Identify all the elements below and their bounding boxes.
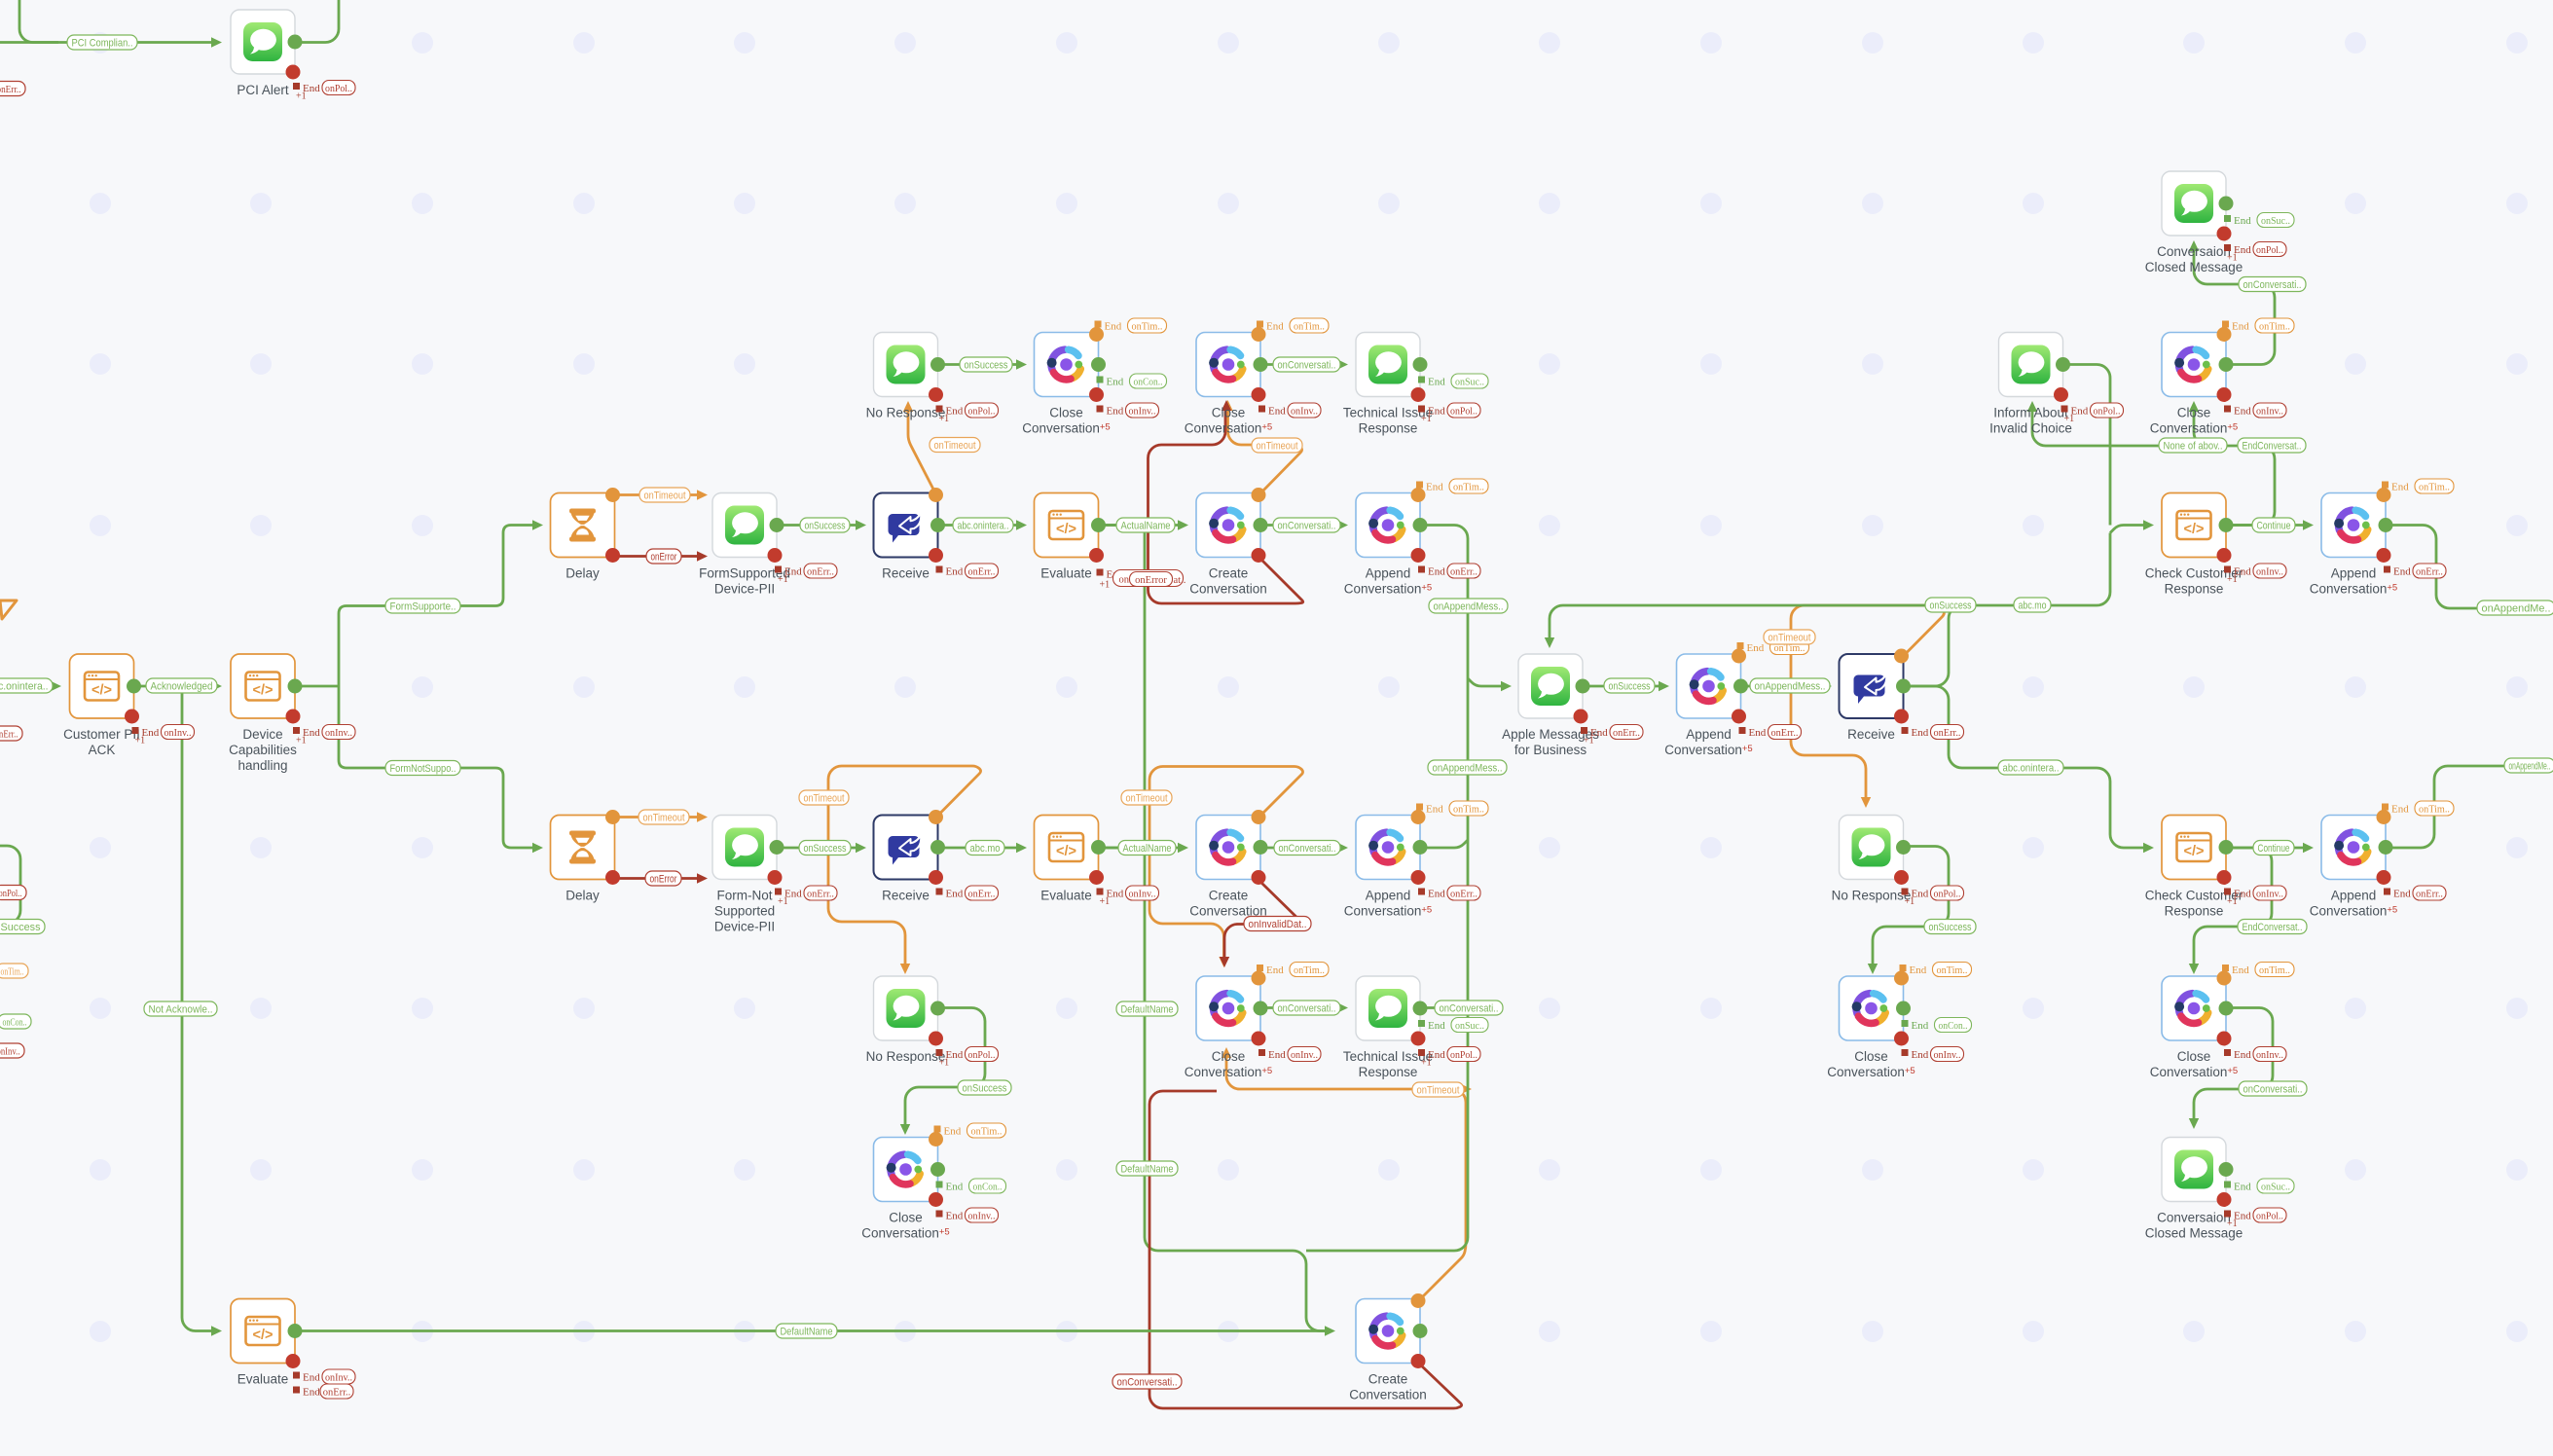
- svg-text:onErr..: onErr..: [968, 889, 996, 899]
- wire from top edge joining PCI wire: [19, 0, 58, 43]
- port red err LR2: [2054, 387, 2068, 402]
- svg-text:onInv..: onInv..: [325, 1372, 352, 1383]
- port green out CPA: [127, 679, 141, 694]
- svg-text:End: End: [2393, 889, 2411, 900]
- svg-text:Conversation+5: Conversation+5: [2310, 582, 2397, 597]
- node Close Conversation 6 (donut): [2150, 333, 2238, 436]
- end label onPol.. of MR1: [2224, 242, 2286, 264]
- wire Device Capabilities split: [295, 685, 339, 688]
- wire Delay1 onError: [615, 555, 701, 558]
- port green out Recv3: [1896, 679, 1911, 694]
- wire Apple Messages onSuccess: [1585, 685, 1662, 688]
- svg-text:onErr..: onErr..: [807, 566, 834, 577]
- arrowhead into CheckCustomerResponse2: [2143, 843, 2154, 853]
- arrowhead into Create1: [1178, 520, 1188, 529]
- wire TIR2 onConversation into trunk: [1421, 1006, 1465, 1009]
- svg-text:Close: Close: [2177, 406, 2211, 420]
- port red err NR3: [2377, 548, 2391, 563]
- node Append Conversation 4 (donut): [2310, 816, 2397, 919]
- node Append Conversation 2 (donut): [1664, 654, 1752, 757]
- svg-text:onInv..: onInv..: [164, 728, 192, 739]
- port green out CCM2: [2219, 1162, 2234, 1177]
- label wire label onError: [646, 549, 681, 564]
- node Delay 2 (delay): [551, 816, 615, 903]
- port green out Append2b: [1413, 840, 1428, 855]
- svg-text:onCon..: onCon..: [1134, 377, 1163, 387]
- arrowhead into Evaluate1: [1016, 520, 1027, 529]
- port green out CCM1: [2219, 197, 2234, 211]
- node Create Conversation 1 (donut): [1189, 493, 1267, 597]
- arrowhead into Customer PII ACK: [51, 681, 61, 691]
- port orange out Append1: [1411, 488, 1426, 502]
- end label onInv.. of GR2: [1258, 403, 1321, 418]
- svg-text:+1: +1: [296, 91, 307, 102]
- wire NoResponse1 onSuccess: [938, 363, 1020, 366]
- svg-text:End: End: [2232, 321, 2249, 333]
- node Customer PII ACK (eval): [63, 654, 140, 757]
- svg-text:End: End: [946, 1211, 964, 1222]
- svg-text:Response: Response: [2165, 904, 2224, 919]
- port red err JR4: [1732, 710, 1746, 724]
- svg-text:PCI Alert: PCI Alert: [237, 83, 289, 97]
- label wire label DefaultName: [1116, 1161, 1178, 1176]
- svg-text:onTim..: onTim..: [971, 1126, 1003, 1137]
- arrowhead into Receive3: [1821, 681, 1832, 691]
- label wire label onSuccess: [1925, 598, 1976, 612]
- svg-text:onInv..: onInv..: [2256, 889, 2283, 899]
- svg-text:+1: +1: [778, 896, 788, 907]
- port orange out Create1: [1252, 488, 1266, 502]
- port green out Append1: [1413, 518, 1428, 532]
- port green out Inform: [2056, 357, 2070, 372]
- svg-text:Continue: Continue: [2257, 520, 2291, 531]
- svg-text:abc.mo: abc.mo: [970, 843, 1001, 855]
- svg-text:ACK: ACK: [89, 743, 116, 757]
- port green out NoResp1: [930, 357, 945, 372]
- svg-text:onSuccess: onSuccess: [963, 1082, 1007, 1094]
- arrowhead into Inform bottom: [2027, 401, 2037, 412]
- svg-text:abc.onintera..: abc.onintera..: [0, 680, 49, 692]
- svg-text:ActualName: ActualName: [1123, 843, 1172, 855]
- svg-text:End: End: [1266, 965, 1284, 976]
- svg-text:Receive: Receive: [882, 889, 930, 903]
- wire Close2 onConversation: [1261, 363, 1341, 366]
- end label onTim.. of KR6: [1900, 963, 1972, 977]
- wire FormSupported branch to Delay1: [339, 526, 535, 687]
- svg-text:onError: onError: [651, 551, 677, 563]
- wire onSuccess rail left into AMB top: [1550, 605, 1956, 640]
- svg-text:Receive: Receive: [1847, 727, 1895, 742]
- node Conversaion Closed Message 1 (chat): [2145, 171, 2243, 274]
- svg-text:Conversation+5: Conversation+5: [2150, 421, 2238, 436]
- end label onTim.. of FR2: [1095, 318, 1167, 333]
- port red err BR8: [286, 1354, 301, 1368]
- svg-text:Continue: Continue: [2258, 843, 2290, 855]
- svg-text:End: End: [1747, 642, 1765, 654]
- node Device Capabilities handling (eval): [229, 654, 297, 773]
- port orange out Close6: [2217, 327, 2232, 342]
- end label onPol.. of ER2: [936, 403, 999, 424]
- port red err IR4: [1574, 710, 1588, 724]
- arrowhead into NoResponse1 bottom: [903, 401, 913, 412]
- label wire label FormSupporte..: [385, 599, 460, 613]
- node Append Conversation 1 (donut): [1344, 493, 1432, 597]
- end label onSuc.. of MR1: [2224, 213, 2294, 228]
- svg-text:onPol..: onPol..: [0, 888, 22, 899]
- svg-text:Conversation+5: Conversation+5: [1827, 1065, 1915, 1079]
- svg-text:onPol..: onPol..: [1450, 406, 1477, 417]
- port red err MR2: [2217, 387, 2232, 402]
- arrowhead into Close7 top: [2189, 964, 2199, 974]
- svg-text:onTim..: onTim..: [1294, 321, 1325, 332]
- node Close Conversation 3 (donut): [1185, 976, 1272, 1079]
- wire rail corner into CCR1: [2110, 526, 2146, 533]
- wire NoResponse3 onSuccess to Close5: [1873, 847, 1949, 967]
- node Check Customer Response 1 (eval): [2145, 493, 2243, 597]
- svg-text:+1: +1: [2227, 1219, 2238, 1229]
- port green out Create2: [1254, 840, 1268, 855]
- label wire label onConversati..: [1435, 1001, 1503, 1015]
- label wire label Acknowledged: [146, 678, 217, 693]
- svg-text:at..: at..: [1174, 575, 1186, 586]
- end label onInv.. of FR5: [1097, 886, 1159, 907]
- end label onErr.. of JR4: [1739, 725, 1802, 740]
- svg-text:onSuccess: onSuccess: [1609, 680, 1651, 692]
- port red err ER3: [929, 548, 943, 563]
- svg-text:onInv..: onInv..: [325, 728, 352, 739]
- svg-text:onTimeout: onTimeout: [1126, 792, 1168, 804]
- label wire label onAppendMe..: [2477, 601, 2553, 615]
- port green out Close6: [2219, 357, 2234, 372]
- end label onTim.. of JR4: [1737, 640, 1809, 655]
- node FormSupported Device-PII (chat): [699, 493, 790, 597]
- end label onPol.. of KR5: [1902, 886, 1964, 907]
- label wire label onTimeout: [1252, 438, 1302, 453]
- svg-text:onSuccess: onSuccess: [965, 359, 1008, 371]
- svg-text:End: End: [2234, 215, 2251, 227]
- port green out TIR2: [1413, 1001, 1428, 1016]
- svg-text:End: End: [1426, 482, 1443, 493]
- wire branch into Apple Messages: [1468, 678, 1504, 686]
- arrowhead into FormNot topleft: [697, 812, 708, 821]
- svg-text:onTim..: onTim..: [2259, 965, 2290, 976]
- svg-text:Conversation+5: Conversation+5: [1185, 421, 1272, 436]
- end label onSuc.. of HR6: [1418, 1018, 1488, 1033]
- arrowhead into Receive2: [856, 843, 866, 853]
- svg-text:onErr..: onErr..: [2416, 566, 2443, 577]
- svg-text:End: End: [2391, 804, 2409, 816]
- svg-text:End: End: [1428, 1020, 1445, 1032]
- svg-text:onTimeout: onTimeout: [644, 490, 686, 501]
- svg-text:Conversation: Conversation: [1349, 1388, 1427, 1402]
- svg-text:Append: Append: [2331, 566, 2377, 581]
- arrowhead into Delay1: [532, 520, 543, 529]
- wire Delay2 onTimeout: [615, 816, 701, 819]
- arrowhead into Evaluate2: [1016, 843, 1027, 853]
- wire PCI Alert output to top edge: [295, 0, 339, 43]
- svg-text:onError: onError: [650, 873, 677, 885]
- end label onSuc.. of HR2: [1418, 374, 1488, 388]
- svg-text:onTim..: onTim..: [2419, 804, 2450, 815]
- port green out Close7: [2219, 1001, 2234, 1016]
- label wire label onError: [645, 871, 681, 886]
- port red err MR1: [2217, 227, 2232, 241]
- svg-text:Conversation+5: Conversation+5: [1664, 743, 1752, 757]
- svg-text:onConversati..: onConversati..: [1440, 1002, 1499, 1014]
- svg-text:Device-PII: Device-PII: [714, 920, 775, 934]
- label left edge cut label onErr..: [0, 726, 22, 741]
- svg-text:onInv..: onInv..: [1129, 889, 1156, 899]
- arrowhead into NoResponse3 top: [1861, 797, 1871, 808]
- wire Append4 onAppendMessage exits right: [2387, 766, 2553, 848]
- port red err FR2: [1089, 387, 1104, 402]
- arrowhead into Close2 bottom (orange): [1222, 400, 1232, 411]
- end label onInv.. of KR6: [1902, 1047, 1964, 1062]
- end label onTim.. of MR2: [2222, 318, 2294, 333]
- node Receive 1 (receive): [874, 493, 938, 581]
- svg-text:onInv..: onInv..: [1291, 1050, 1318, 1061]
- svg-text:onTim..: onTim..: [1132, 321, 1163, 332]
- node Evaluate 2 (eval): [1035, 816, 1099, 903]
- svg-text:onPol..: onPol..: [968, 406, 996, 417]
- end label onErr.. of IR4: [1581, 725, 1643, 746]
- wire Create3 onTimeout loop to Close3 bottom: [1226, 1056, 1466, 1301]
- end label onPol.. of BR0: [293, 81, 355, 102]
- port green out AMB: [1576, 679, 1590, 694]
- port green out Eval1: [1091, 518, 1106, 532]
- port orange out Close4: [929, 1132, 943, 1147]
- wire Close6 onConversationClosed to CCM1: [2194, 249, 2275, 365]
- svg-text:onConversati..: onConversati..: [2243, 279, 2302, 291]
- label wire label Continue: [2252, 518, 2295, 532]
- svg-text:onInv..: onInv..: [2256, 566, 2283, 577]
- arrowhead into PCI Alert: [211, 37, 222, 47]
- end label onTim.. of NR3: [2382, 479, 2454, 493]
- svg-text:Response: Response: [2165, 582, 2224, 597]
- node Close Conversation 7 (donut): [2150, 976, 2238, 1079]
- svg-text:None of abov..: None of abov..: [2164, 440, 2223, 452]
- port red err HR2: [1411, 387, 1426, 402]
- svg-text:onErr..: onErr..: [1450, 566, 1477, 577]
- label left edge cut label onPol..: [0, 886, 26, 900]
- svg-text:onErr..: onErr..: [0, 728, 18, 740]
- svg-text:Delay: Delay: [565, 566, 600, 581]
- label wire label onSuccess: [1924, 920, 1976, 934]
- svg-text:onInv..: onInv..: [2256, 1050, 2283, 1061]
- svg-text:No Response: No Response: [866, 406, 946, 420]
- svg-text:End: End: [946, 566, 964, 578]
- svg-text:+1: +1: [1100, 896, 1111, 907]
- svg-text:onInv..: onInv..: [1129, 406, 1156, 417]
- label wire label DefaultName: [1116, 1001, 1178, 1016]
- end label onTim.. of HR3: [1416, 479, 1488, 493]
- label wire label onConversati..: [2239, 277, 2306, 292]
- svg-text:onTim..: onTim..: [1453, 482, 1484, 492]
- svg-text:Conversation+5: Conversation+5: [2310, 904, 2397, 919]
- node Delay 1 (delay): [551, 493, 615, 581]
- svg-text:onConversati..: onConversati..: [1278, 520, 1336, 531]
- label wire label ActualName: [1118, 841, 1176, 855]
- svg-text:Receive: Receive: [882, 566, 930, 581]
- svg-text:Create: Create: [1209, 566, 1249, 581]
- svg-text:+1: +1: [1421, 1058, 1432, 1069]
- port orange out Close7: [2217, 971, 2232, 986]
- svg-text:onTim..: onTim..: [1453, 804, 1484, 815]
- end label onTim.. of NR5: [2382, 801, 2454, 816]
- end label onPol.. of LR2: [2061, 403, 2124, 424]
- port red err GR6: [1252, 1032, 1266, 1046]
- end label onErr.. of DR3: [775, 564, 837, 585]
- port green out Create3: [1413, 1324, 1428, 1338]
- svg-text:End: End: [303, 1372, 320, 1384]
- port red err ER7: [929, 1192, 943, 1207]
- node Close Conversation 5 (donut): [1827, 976, 1915, 1079]
- port orange out Close2: [1252, 327, 1266, 342]
- svg-text:onPol..: onPol..: [2094, 406, 2121, 417]
- port red err GR3: [1252, 548, 1266, 563]
- node Create Conversation 2 (donut): [1189, 816, 1267, 919]
- svg-text:onErr..: onErr..: [2416, 889, 2443, 899]
- port green out Append4: [2379, 840, 2393, 855]
- port red err MR3: [2217, 548, 2232, 563]
- svg-text:FormNotSuppo..: FormNotSuppo..: [390, 763, 456, 775]
- port red err GR5: [1252, 870, 1266, 885]
- svg-text:onErr..: onErr..: [0, 84, 21, 95]
- label wire label EndConversat..: [2238, 920, 2307, 934]
- end label onErr.. of ER3: [936, 564, 999, 578]
- port green out CCR1: [2219, 518, 2234, 532]
- svg-text:+1: +1: [1100, 580, 1111, 591]
- wire Append3 onAppendMessage exits right: [2387, 526, 2553, 609]
- svg-text:End: End: [1749, 727, 1767, 739]
- svg-text:DefaultName: DefaultName: [781, 1326, 833, 1337]
- label wire label abc.onintera..: [0, 678, 53, 693]
- svg-text:abc.onintera..: abc.onintera..: [2003, 762, 2060, 774]
- svg-text:onTimeout: onTimeout: [804, 792, 845, 804]
- svg-text:End: End: [1107, 406, 1124, 418]
- port orange out Append4: [2377, 810, 2391, 824]
- label wire label ActualName: [1116, 518, 1175, 532]
- arrowhead into Close6 bottom: [2189, 401, 2199, 412]
- svg-text:Close: Close: [1212, 406, 1246, 420]
- wire DefaultName trunk down from Evaluate1: [1099, 526, 1329, 1331]
- label wire label None of abov..: [2159, 438, 2227, 453]
- arrowhead into Apple Messages left: [1501, 681, 1512, 691]
- svg-text:onTim..: onTim..: [2419, 482, 2450, 492]
- label wire label onConversati..: [1112, 1374, 1182, 1389]
- svg-text:onAppendMess..: onAppendMess..: [1434, 601, 1504, 612]
- wire FormNotSupported branch to Delay2: [339, 686, 535, 848]
- svg-text:End: End: [1912, 727, 1929, 739]
- wire CCR1 EndConversation up to Close6: [2194, 410, 2275, 526]
- port orange out Close5: [1894, 971, 1909, 986]
- svg-text:onInv..: onInv..: [1291, 406, 1318, 417]
- port red err FR5: [1089, 870, 1104, 885]
- svg-text:No Response: No Response: [1832, 889, 1912, 903]
- svg-text:Acknowledged: Acknowledged: [151, 680, 213, 692]
- arrowhead into TIR1: [1337, 359, 1348, 369]
- end label onInv.. of MR6: [2224, 1047, 2286, 1062]
- svg-text:End: End: [946, 1182, 964, 1193]
- svg-text:Conversation+5: Conversation+5: [1344, 582, 1432, 597]
- end label onErr.. of NR5: [2384, 886, 2446, 900]
- svg-text:End: End: [1105, 321, 1122, 333]
- label wire label onTimeout: [930, 438, 980, 453]
- svg-text:ActualName: ActualName: [1121, 520, 1171, 531]
- svg-text:Response: Response: [1359, 1065, 1418, 1079]
- arrowhead into Delay2: [532, 843, 543, 853]
- port green out Append3: [2379, 518, 2393, 532]
- svg-text:abc.onintera..: abc.onintera..: [958, 520, 1009, 531]
- node Apple Messages for Business (chat): [1502, 654, 1599, 757]
- svg-text:Invalid Choice: Invalid Choice: [1989, 421, 2072, 436]
- label wire label abc.onintera..: [1998, 760, 2063, 775]
- label wire label Continue: [2253, 841, 2294, 855]
- port orange out Recv2: [929, 810, 943, 824]
- end label onCon.. of KR6: [1902, 1018, 1972, 1033]
- svg-text:Inform About: Inform About: [1993, 406, 2068, 420]
- label wire label onConversati..: [1273, 1001, 1340, 1015]
- wire Receive3 onTimeout to NoResponse3: [1791, 605, 1944, 799]
- port green out Eval2: [1091, 840, 1106, 855]
- wire Create2 onInvalidData to Close3: [1224, 881, 1303, 962]
- port red err NR5: [2377, 870, 2391, 885]
- port green out Create1: [1254, 518, 1268, 532]
- end label onTim.. of HR5: [1416, 801, 1488, 816]
- svg-text:onSuc..: onSuc..: [1455, 1021, 1484, 1032]
- wire Create2 onTimeout loop to Close3: [1149, 767, 1303, 962]
- port red err ER6: [929, 1032, 943, 1046]
- svg-text:End: End: [1268, 1049, 1286, 1061]
- svg-text:Close: Close: [1212, 1049, 1246, 1064]
- svg-text:End: End: [944, 1126, 962, 1138]
- arrowhead into Close5 top: [1868, 964, 1878, 974]
- svg-text:onInv..: onInv..: [968, 1211, 996, 1221]
- svg-text:onPol..: onPol..: [2256, 1211, 2283, 1221]
- svg-text:onInvalidDat..: onInvalidDat..: [1249, 919, 1307, 930]
- wire Receive2 onTimeout to NoResponse2: [828, 766, 981, 966]
- arrowhead into CCM2 top: [2189, 1118, 2199, 1129]
- arrowhead into Close3 bottom (orange): [1222, 1047, 1231, 1058]
- node PCI Alert (chat): [231, 10, 295, 97]
- end label onInv.. of MR2: [2224, 403, 2286, 418]
- wire Evaluate2 ActualName: [1099, 847, 1182, 850]
- svg-text:onConversati..: onConversati..: [1278, 359, 1336, 371]
- end label onInv.. of GR6: [1258, 1047, 1321, 1062]
- svg-text:onErr..: onErr..: [807, 889, 834, 899]
- partial hourglass icon of off-canvas node: [0, 601, 17, 619]
- end label onInv.. of ER7: [936, 1208, 999, 1222]
- label wire label onTimeout: [1764, 630, 1815, 644]
- svg-text:Capabilities: Capabilities: [229, 743, 297, 757]
- svg-text:onErr..: onErr..: [1771, 728, 1799, 739]
- wire CCR1 Continue: [2227, 524, 2307, 527]
- svg-text:on: on: [1119, 575, 1130, 586]
- port green out TIR1: [1413, 357, 1428, 372]
- svg-text:onConversati..: onConversati..: [1278, 1002, 1336, 1014]
- wire Delay1 onTimeout: [615, 493, 701, 496]
- end label onTim.. of MR6: [2222, 963, 2294, 977]
- port red err AR4: [125, 710, 139, 724]
- label wire label onInvalidDat..: [1244, 917, 1311, 931]
- svg-text:Conversaion: Conversaion: [2157, 1211, 2231, 1225]
- end label onErr of Evaluate3 second row: [293, 1384, 353, 1399]
- end label onPol.. of HR6: [1418, 1047, 1480, 1069]
- wire Create1 onInvalidData loop to Close2: [1149, 410, 1303, 603]
- svg-text:onTim..: onTim..: [2259, 321, 2290, 332]
- node Inform About Invalid Choice (chat): [1989, 333, 2072, 436]
- arrowhead into FormSupported bottomleft: [697, 551, 708, 561]
